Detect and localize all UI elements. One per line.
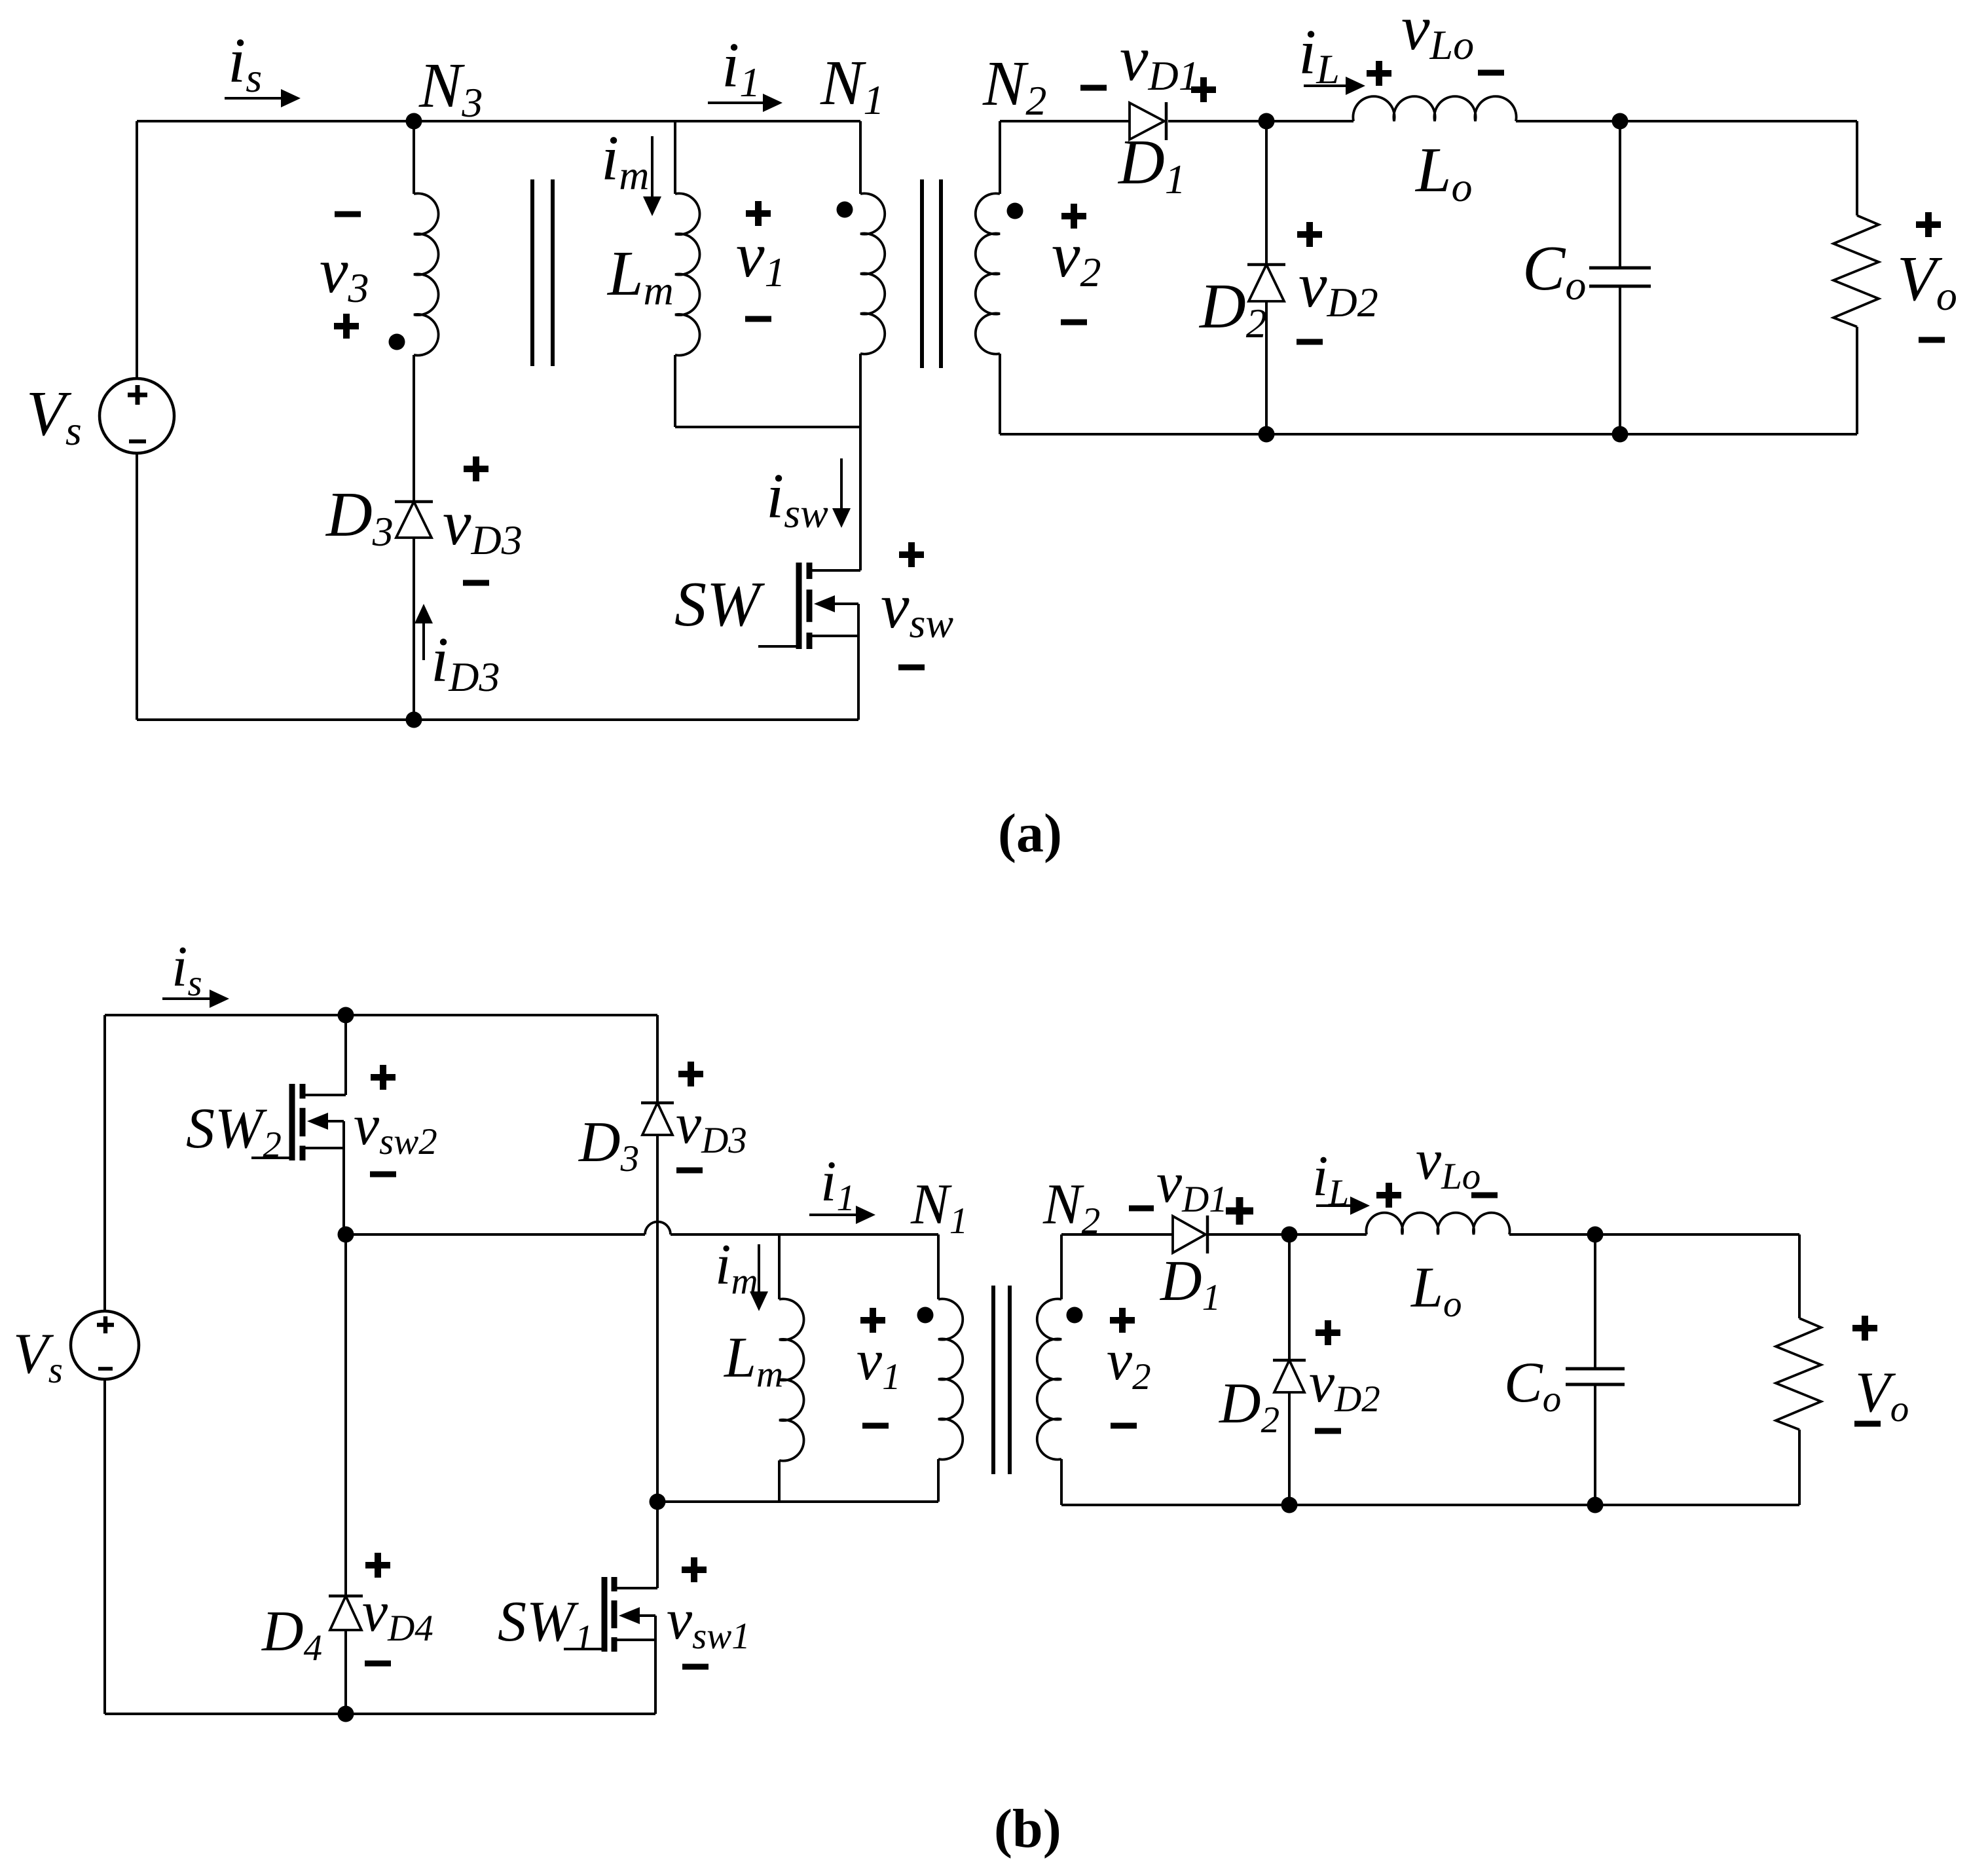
wire: D4 to bottom rail (b) [344, 1630, 347, 1714]
winding N2 secondary (a) [976, 193, 1000, 354]
node N3 junction dot (a, top) [406, 113, 422, 130]
label N2 (a) [982, 48, 1046, 124]
wire: N1 column upper (a) [859, 121, 862, 194]
junction dot Co top (b) [1587, 1227, 1604, 1243]
label minus vsw (a) [898, 665, 925, 671]
junction dot Co bottom (a) [1612, 426, 1629, 443]
label plus vD2 (b) [1316, 1320, 1340, 1345]
wire: Lm column lower (a) [674, 355, 676, 427]
wire: D1 to node (a) [1168, 120, 1266, 122]
wire: N1 column lower (b) [937, 1459, 940, 1502]
arrow i1 (b) [809, 1206, 875, 1224]
label plus v3 (a) [334, 314, 359, 339]
label minus v1 (a) [745, 316, 771, 322]
label Vs (a) [26, 379, 82, 454]
junction dot D1-D2-Lo node (a) [1259, 113, 1275, 130]
capacitor Co (a) [1589, 121, 1651, 434]
junction dot bottom rail (a) [406, 712, 422, 728]
inductor Lm coil (b) [779, 1299, 804, 1460]
winding N2 secondary (b) [1037, 1299, 1061, 1459]
label minus vsw2 (b) [370, 1172, 396, 1178]
wire: D2 column upper (a) [1265, 121, 1268, 265]
wire: left rail upper (a) [136, 121, 138, 379]
caption (b) [994, 1798, 1061, 1859]
label vsw (a) [881, 571, 953, 646]
arrow is (a) [225, 89, 301, 107]
junction dot D2 bottom (a) [1259, 426, 1275, 443]
wire: mid rail right of hop (b) [671, 1233, 938, 1236]
polarity dot N1 (a) [837, 202, 853, 218]
winding N1 primary (a) [860, 193, 885, 354]
arrow im (a) [643, 136, 661, 216]
winding N1 primary (b) [938, 1299, 963, 1459]
transformer core bars (b) [993, 1286, 1010, 1474]
label i1 (a) [722, 30, 760, 105]
label iL (a) [1298, 17, 1340, 92]
wire: D2 column upper (b) [1288, 1234, 1291, 1360]
label plus vLo (b) [1376, 1183, 1401, 1208]
wire: node to Lo (a) [1266, 120, 1353, 122]
wire: SW1 drain (b) [656, 1502, 659, 1588]
label Vo (b) [1855, 1361, 1909, 1430]
wire: D3 column upper (b) [656, 1015, 659, 1103]
label Lo (a) [1414, 135, 1473, 210]
label minus Vo (a) [1919, 337, 1945, 343]
arrow iD3 (a) [414, 604, 433, 660]
label D4 (b) [261, 1600, 322, 1669]
wire: load column upper (b) [1798, 1234, 1801, 1318]
label minus vD2 (a) [1297, 339, 1323, 345]
label v1 (b) [856, 1329, 901, 1398]
label minus Vo (b) [1854, 1421, 1881, 1427]
wire: Co node to load corner (b) [1595, 1233, 1799, 1236]
arrow is (b) [162, 990, 229, 1008]
wire: left rail lower (b) [103, 1379, 106, 1714]
arrow isw (a) [832, 458, 851, 528]
wire: load column lower (a) [1856, 327, 1858, 434]
label plus vsw2 (b) [371, 1065, 396, 1090]
wire: Lo to Co node (a) [1516, 120, 1620, 122]
junction dot Co bottom (b) [1587, 1497, 1604, 1513]
label D1 (b) [1160, 1250, 1221, 1318]
wire: D2 to bottom (a) [1265, 301, 1268, 434]
wire: primary bottom (b) [657, 1500, 938, 1503]
label D3 (b) [578, 1111, 639, 1179]
diode D3 (b) [641, 1103, 674, 1135]
label vD2 (a) [1298, 250, 1378, 325]
diode D2 (a) [1247, 265, 1285, 301]
wire: D1 to node (b) [1207, 1233, 1289, 1236]
svg-text:(b): (b) [994, 1798, 1061, 1859]
arrow iL (b) [1316, 1196, 1370, 1215]
wire: node to Lo (b) [1289, 1233, 1367, 1236]
svg-text:SW: SW [674, 569, 765, 640]
label vD3 (a) [443, 488, 523, 563]
wire: Lo to Co node (b) [1509, 1233, 1595, 1236]
label plus vD1 (a) [1191, 77, 1216, 102]
transformer core bars (a) [922, 179, 941, 368]
polarity dot N2 (b) [1067, 1307, 1083, 1324]
junction dot D1-D2-Lo node (b) [1281, 1227, 1298, 1243]
label plus vD3 (a) [464, 456, 488, 481]
wire: secondary top rail left (b) [1061, 1233, 1173, 1236]
label iD3 (a) [431, 625, 500, 700]
wire: secondary top rail left part (a) [1000, 120, 1130, 122]
label plus vD3 (b) [678, 1062, 703, 1086]
label vsw2 (b) [354, 1094, 437, 1162]
label Co (a) [1522, 233, 1586, 308]
label plus vsw (a) [899, 542, 924, 567]
label plus vD1 (b) [1226, 1197, 1253, 1225]
wire: bottom rail (a) [137, 718, 858, 721]
wire: N3 column upper (a) [413, 121, 415, 194]
label minus v3 (a) [335, 212, 361, 217]
capacitor Co (b) [1566, 1234, 1625, 1505]
winding v3/N3 (a) [414, 193, 439, 355]
label im (b) [715, 1233, 758, 1302]
diode D2 (b) [1273, 1360, 1306, 1392]
wire: top rail (a) from Vs to N1 [137, 120, 860, 122]
wire: N2 column lower (a) [999, 354, 1001, 434]
label minus vD2 (b) [1315, 1428, 1341, 1434]
wire: mid rail left of hop (b) [346, 1233, 645, 1236]
label D3 (a) [325, 479, 394, 555]
wire: secondary bottom rail (b) [1061, 1504, 1799, 1506]
wire: SW2 drain from top rail (b) [344, 1015, 347, 1095]
junction dot D2 bottom (b) [1281, 1497, 1298, 1513]
wire: primary bottom (a) [675, 426, 860, 428]
diode D1 (a) [1130, 102, 1166, 140]
wire: N1 to switch drain (a) [859, 427, 862, 570]
label SW2 (b) [186, 1097, 282, 1166]
label plus Vo (b) [1852, 1316, 1877, 1341]
label vLo (a) [1401, 0, 1474, 68]
label plus vsw1 (b) [682, 1557, 707, 1582]
wire: N1 column lower (a) [859, 354, 862, 427]
label plus vLo (a) [1367, 61, 1391, 86]
diode D1 (b) [1173, 1215, 1207, 1253]
label i1 (b) [820, 1150, 855, 1219]
label Lm (a) [606, 238, 674, 314]
label vD1 (a) [1120, 24, 1200, 99]
transistor SW (a) [758, 563, 860, 720]
label D2 (b) [1219, 1372, 1279, 1441]
inductor Lo (a) [1353, 96, 1516, 121]
diode D3 (a) [395, 502, 433, 538]
label vD2 (b) [1309, 1351, 1380, 1420]
label plus v2 (a) [1061, 204, 1086, 229]
label plus vD2 (a) [1297, 222, 1322, 247]
wire: load column upper (a) [1856, 121, 1858, 215]
label is (a) [228, 26, 262, 101]
voltage source Vs (a) [100, 379, 174, 453]
junction dot top rail (b) [338, 1007, 354, 1024]
resistor load (a) [1833, 215, 1879, 327]
diode D4 (b) [329, 1596, 363, 1630]
label D2 (a) [1198, 271, 1267, 346]
caption (a) [998, 803, 1062, 864]
label vsw1 (b) [667, 1588, 750, 1657]
label v2 (b) [1107, 1329, 1151, 1398]
transistor SW1 (b) [564, 1577, 657, 1714]
label SW1 (b) [498, 1590, 593, 1659]
label Vs (b) [13, 1322, 63, 1391]
arrow im (b) [750, 1244, 768, 1311]
label plus vD4 (b) [365, 1553, 390, 1578]
wire: D3 to bottom rail (a) [413, 538, 415, 720]
junction dot Co top (a) [1612, 113, 1629, 130]
label minus v1 (b) [862, 1423, 889, 1429]
label Lm (b) [723, 1326, 783, 1395]
label Co (b) [1504, 1351, 1561, 1420]
label vD4 (b) [362, 1580, 433, 1649]
wire: Lm column lower (b) [778, 1460, 781, 1502]
wire: N2 column lower (b) [1060, 1459, 1063, 1505]
transistor SW2 (b) [251, 1084, 346, 1234]
wire: top rail (b) [105, 1014, 657, 1016]
arrow i1 (a) [708, 94, 782, 112]
label minus vsw1 (b) [682, 1664, 709, 1670]
label plus Vo (a) [1916, 212, 1941, 237]
voltage source Vs (b) [71, 1311, 139, 1379]
label v1 (a) [736, 220, 786, 295]
label isw (a) [766, 461, 828, 536]
wire: Lm column upper (a) [674, 121, 676, 194]
wire: hop over D3 column (b) [645, 1222, 671, 1235]
label minus v2 (a) [1061, 320, 1087, 325]
label minus vLo (b) [1471, 1193, 1498, 1198]
wire: secondary bottom rail (a) [1000, 433, 1857, 436]
polarity dot v3 (a) [389, 334, 405, 350]
label vD1 (b) [1156, 1151, 1228, 1220]
wire: N3 to D3 (a) [413, 355, 415, 502]
resistor load (b) [1776, 1318, 1821, 1430]
wire: D3 to primary bottom node (b) [656, 1135, 659, 1502]
junction dot SW2 source node (b) [338, 1227, 354, 1243]
label minus vD3 (a) [463, 580, 489, 586]
label Vo (a) [1897, 244, 1957, 319]
wire: bottom rail (b) [105, 1713, 655, 1715]
label N2 (b) [1042, 1173, 1100, 1242]
label v2 (a) [1052, 220, 1101, 295]
label v3 (a) [320, 236, 369, 311]
wire: D2 to bottom (b) [1288, 1392, 1291, 1505]
polarity dot N1 (b) [917, 1307, 934, 1324]
wire: D4 column upper (b) [344, 1234, 347, 1596]
label im (a) [601, 123, 649, 198]
wire: Co node to load corner (a) [1620, 120, 1857, 122]
label is (b) [172, 935, 202, 1004]
label N1 (b) [910, 1173, 968, 1242]
label N3 (a) [418, 50, 483, 126]
label Lo (b) [1410, 1256, 1462, 1325]
label minus vD1 (b) [1129, 1206, 1154, 1212]
wire: N1 column upper (b) [937, 1234, 940, 1299]
junction dot D3 bottom (b) [650, 1494, 666, 1510]
label minus vD3 (b) [676, 1168, 703, 1174]
polarity dot N2 (a) [1007, 203, 1023, 219]
label plus v1 (b) [860, 1308, 885, 1333]
junction dot bottom rail (b) [338, 1706, 354, 1722]
label SW (a) [674, 569, 765, 640]
svg-text:(a): (a) [998, 803, 1062, 864]
inductor Lm coil (a) [675, 193, 700, 355]
inductor Lo (b) [1366, 1213, 1509, 1234]
transformer core bars between N3 and Lm (a) [532, 179, 553, 366]
label minus vD1 (a) [1080, 85, 1107, 91]
arrow iL (a) [1304, 77, 1365, 95]
label vD3 (b) [676, 1092, 747, 1161]
label minus v2 (b) [1111, 1423, 1137, 1429]
wire: Lm column upper (b) [778, 1234, 781, 1299]
label minus vLo (a) [1478, 70, 1504, 76]
wire: left rail upper (b) [103, 1015, 106, 1311]
label vLo (b) [1416, 1128, 1481, 1197]
label N1 (a) [820, 48, 884, 123]
label plus v1 (a) [746, 201, 771, 226]
wire: N2 column upper (a) [999, 121, 1001, 194]
label minus vD4 (b) [365, 1661, 391, 1667]
label D1 (a) [1117, 127, 1186, 202]
wire: N2 column upper (b) [1060, 1234, 1063, 1299]
label plus v2 (b) [1110, 1308, 1135, 1333]
wire: left rail lower (a) [136, 453, 138, 720]
wire: load column lower (b) [1798, 1430, 1801, 1505]
label iL (b) [1312, 1145, 1349, 1214]
